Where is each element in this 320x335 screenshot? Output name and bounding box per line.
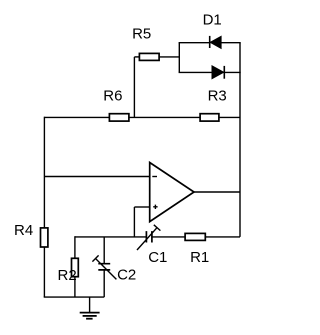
wire left rail lower — [43, 247, 45, 297]
wire bottom middle line to C1 — [75, 236, 146, 238]
diode D1 (top, pointing left) — [203, 12, 222, 49]
capacitor C2 (trimmer, vertical) — [92, 255, 136, 283]
svg-text:C1: C1 — [148, 249, 167, 266]
svg-text:R1: R1 — [190, 249, 209, 266]
wire inverting input — [44, 176, 149, 178]
wire op-amp output — [194, 191, 240, 193]
wire left rail upper — [43, 117, 45, 228]
wire R5 vertical drop — [133, 57, 135, 118]
svg-text:C2: C2 — [117, 267, 136, 284]
wire C1 to R1 — [152, 236, 185, 238]
wire non-inverting input horizontal — [134, 206, 149, 208]
svg-text:R6: R6 — [103, 88, 122, 105]
wire top feedback line (left rail to R6) — [44, 116, 109, 118]
wire R5 left lead — [134, 56, 139, 58]
wire R3 to right rail — [219, 116, 240, 118]
svg-text:D1: D1 — [203, 12, 222, 29]
resistor R4 — [14, 222, 48, 247]
wire C2 bottom stem — [103, 270, 105, 297]
wire loop top left of D1 — [179, 42, 210, 44]
op-amp U1 — [150, 163, 194, 222]
wire R1 to right rail — [205, 236, 240, 238]
wire right rail — [239, 43, 241, 237]
svg-text:R4: R4 — [14, 222, 33, 239]
wire diode loop left side — [178, 43, 180, 73]
wire loop bottom right of D2 — [224, 71, 240, 73]
capacitor C1 (trimmer, horizontal) — [137, 225, 167, 266]
wire R6 to R3 — [129, 116, 200, 118]
wire non-inverting input vertical — [133, 207, 135, 237]
wire R2 bottom stem — [74, 277, 76, 297]
svg-text:R5: R5 — [132, 26, 151, 43]
wire R2 top stem — [74, 236, 76, 258]
diode D2 (bottom, anti-parallel, pointing right) — [212, 66, 224, 79]
svg-text:R3: R3 — [208, 88, 227, 105]
wire R5 right lead to loop — [159, 56, 179, 58]
resistor R1 — [185, 233, 209, 266]
wire loop bottom left of D2 — [179, 71, 212, 73]
resistor R2 — [58, 258, 79, 284]
resistor R5 — [132, 26, 159, 61]
svg-text:R2: R2 — [58, 267, 77, 284]
wire C2 top stem — [103, 237, 105, 264]
resistor R6 — [103, 88, 129, 122]
wire bottom-left to ground junction — [44, 296, 104, 298]
resistor R3 — [200, 88, 227, 122]
wire loop top right of D1 — [221, 42, 241, 44]
ground — [80, 297, 100, 319]
